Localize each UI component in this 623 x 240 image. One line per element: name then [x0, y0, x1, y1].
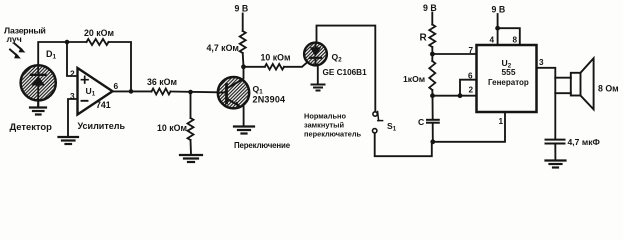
svg-text:8 Ом: 8 Ом — [598, 84, 619, 94]
label Q2 — [332, 52, 343, 64]
wire cap to ground — [554, 144, 556, 160]
ground (output) — [546, 161, 566, 168]
pin label 6 (555) — [468, 72, 473, 81]
wire switch bottom to C-rail node — [375, 133, 432, 156]
svg-text:6: 6 — [468, 72, 473, 81]
wire 9V to pins 4 and 8 — [498, 14, 520, 45]
svg-text:D1: D1 — [46, 49, 57, 61]
label 4,7 мкФ — [568, 137, 601, 147]
wire 1k to node pin 2 — [431, 90, 433, 96]
svg-text:9 В: 9 В — [235, 4, 249, 14]
svg-text:10 кОм: 10 кОм — [261, 53, 291, 63]
wire R to node 7 — [431, 47, 433, 54]
label Детектор — [10, 121, 53, 132]
capacitor 4,7 мкФ — [546, 140, 565, 144]
wire anode to switch S1 — [317, 26, 376, 112]
switch S1 (normally closed pushbutton) — [373, 112, 383, 134]
pin label 3 — [70, 91, 75, 101]
label 2N3904 — [253, 95, 286, 105]
svg-text:GE C106B1: GE C106B1 — [323, 68, 368, 77]
node pin 7 junction — [430, 52, 435, 57]
label 10 кОм (gate) — [261, 53, 291, 63]
SCR Q2 GE C106B1 — [304, 43, 327, 66]
label R — [420, 33, 428, 44]
wire cathode to ground — [317, 65, 319, 84]
node pin 2 junction — [430, 93, 435, 98]
svg-text:9 В: 9 В — [423, 3, 437, 13]
svg-text:1кОм: 1кОм — [403, 74, 425, 84]
node pin 6 junction — [458, 93, 463, 98]
speaker 8 Ом — [555, 58, 593, 109]
wire node to pin 2 — [433, 95, 477, 97]
laser beam arrows — [10, 44, 25, 59]
pin label 6 — [114, 81, 119, 91]
svg-text:Нормально: Нормально — [304, 112, 346, 121]
photodiode D1 — [21, 65, 56, 100]
wire 4.7k to collector node — [242, 53, 245, 79]
wire photodiode top to input node — [38, 42, 67, 66]
svg-text:1: 1 — [499, 117, 504, 126]
wire op-amp output — [113, 90, 152, 92]
wire pin 3 to speaker — [537, 68, 556, 139]
svg-text:3: 3 — [539, 58, 544, 67]
node base junction — [188, 90, 193, 95]
wire node to 10k — [190, 92, 192, 118]
transistor Q1 2N3904 — [218, 77, 249, 108]
wire emitter to ground — [243, 107, 245, 127]
svg-text:2: 2 — [469, 86, 474, 95]
svg-text:Генератор: Генератор — [488, 78, 529, 87]
wire bottom node to pin 1 — [433, 113, 505, 142]
wire feedback right leg — [109, 42, 132, 91]
node collector — [241, 64, 246, 69]
label D1 — [46, 49, 57, 61]
svg-text:переключатель: переключатель — [304, 130, 362, 139]
pin label 7 — [469, 46, 474, 55]
label Усилитель — [78, 121, 126, 131]
IC internal labels — [488, 58, 529, 87]
pin label 1 — [499, 117, 504, 126]
ground (detector) — [30, 100, 46, 115]
capacitor C — [427, 120, 439, 123]
svg-text:C: C — [418, 117, 424, 127]
svg-text:Q2: Q2 — [332, 52, 343, 64]
svg-text:36 кОм: 36 кОм — [147, 77, 177, 87]
ground (10k) — [180, 155, 202, 162]
resistor R — [429, 25, 435, 48]
label 1 кОм — [403, 74, 425, 84]
label Переключение — [234, 141, 291, 150]
svg-text:8: 8 — [513, 36, 518, 45]
svg-text:2: 2 — [70, 69, 75, 79]
svg-text:Усилитель: Усилитель — [78, 121, 126, 131]
power 9V (555) — [492, 5, 506, 15]
label laser beam (Лазерный луч) — [4, 26, 46, 45]
node output junction — [129, 89, 134, 94]
svg-text:4,7 кОм: 4,7 кОм — [207, 43, 239, 53]
resistor 4,7 кОм — [240, 31, 246, 53]
svg-text:6: 6 — [114, 81, 119, 91]
pin label 2 (555) — [469, 86, 474, 95]
wire feedback top — [67, 41, 87, 43]
label 36 кОм — [147, 77, 177, 87]
resistor 10 кОм (gate) — [265, 64, 284, 70]
label 20 кОм — [84, 28, 114, 38]
label Q1 — [253, 84, 264, 96]
ground (Q2 cathode) — [312, 85, 325, 91]
svg-text:20 кОм: 20 кОм — [84, 28, 114, 38]
node pins 4-8 junction — [495, 26, 500, 31]
svg-text:U1: U1 — [86, 86, 96, 98]
wire 9V to R — [431, 13, 433, 25]
svg-text:555: 555 — [502, 67, 516, 77]
pin label 2 — [70, 69, 75, 79]
wire node to capacitor C — [432, 96, 434, 120]
label 10 кОм — [157, 123, 187, 133]
pin label 8 — [513, 36, 518, 45]
svg-text:Переключение: Переключение — [234, 141, 291, 150]
pin label 4 — [490, 36, 495, 45]
svg-text:замкнутый: замкнутый — [304, 121, 344, 130]
svg-text:741: 741 — [96, 100, 111, 110]
label GE C106B1 — [323, 68, 368, 77]
svg-text:R: R — [420, 33, 428, 44]
wire node to pin 7 — [432, 53, 476, 55]
resistor 1 кОм — [431, 54, 433, 61]
svg-text:10 кОм: 10 кОм — [157, 123, 187, 133]
ground (op-amp pin 3) — [59, 137, 79, 144]
svg-text:S1: S1 — [387, 121, 397, 133]
label 4,7 кОм — [207, 43, 239, 53]
IC U2 555 — [477, 45, 537, 112]
wire to base node — [171, 91, 219, 94]
power 9V (right rail) — [423, 3, 437, 13]
resistor 36 кОм — [152, 89, 171, 95]
wire pin 3 to ground — [68, 99, 78, 137]
node bottom junction — [430, 139, 435, 144]
svg-text:9 В: 9 В — [492, 5, 506, 15]
wire 10k to ground — [190, 140, 193, 155]
label C — [418, 117, 424, 127]
wire to SCR gate — [284, 62, 308, 67]
label 8 Ом — [598, 84, 619, 94]
svg-text:2N3904: 2N3904 — [253, 95, 286, 105]
resistor 10 кОм to ground — [188, 118, 194, 140]
pin label 3 — [539, 58, 544, 67]
op-amp internal labels — [86, 86, 111, 110]
wire node down to pin 2 — [67, 42, 78, 76]
resistor R feedback 20 кОм — [87, 39, 109, 45]
svg-text:Детектор: Детектор — [10, 121, 53, 132]
op-amp U1 741 — [78, 68, 113, 115]
wire C to bottom node — [432, 123, 434, 142]
svg-text:4: 4 — [490, 36, 495, 45]
svg-text:4,7 мкФ: 4,7 мкФ — [568, 137, 601, 147]
wire collector node to 10k gate resistor — [244, 66, 265, 68]
node input junction — [65, 40, 70, 45]
power +9V (middle) — [235, 4, 249, 14]
label S1 — [387, 121, 397, 133]
label normally closed switch — [304, 112, 362, 139]
svg-text:7: 7 — [469, 46, 474, 55]
ground (emitter) — [234, 127, 254, 134]
wire 9V to 4.7k — [242, 14, 244, 32]
wire pin 6 link — [460, 80, 477, 96]
